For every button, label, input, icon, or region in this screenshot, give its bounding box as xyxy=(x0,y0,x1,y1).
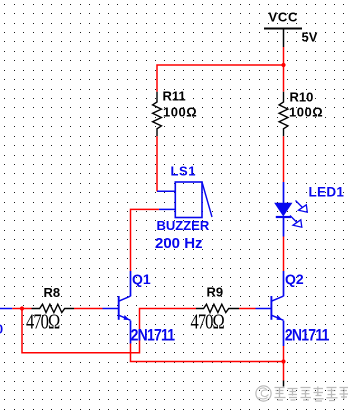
svg-text:470Ω: 470Ω xyxy=(191,310,225,333)
wire junction to R10 xyxy=(283,65,285,92)
LED1 xyxy=(275,182,344,237)
wire input to R8 xyxy=(12,308,31,310)
emission arrow 1 xyxy=(296,201,308,213)
svg-text:Q2: Q2 xyxy=(285,271,304,287)
transistor Q1 xyxy=(103,271,176,345)
resistor R11 xyxy=(153,89,198,137)
resistor R10 xyxy=(279,90,323,137)
svg-text:100Ω: 100Ω xyxy=(289,105,323,120)
resistor R9 xyxy=(191,285,240,334)
wire R11 to buzzer pin1 xyxy=(156,136,158,191)
resistor R8 xyxy=(26,285,74,334)
wire input branch to R9 xyxy=(22,309,196,353)
svg-text:LED1: LED1 xyxy=(309,185,345,200)
wire top rail to R11 xyxy=(157,65,284,92)
wire R10 to LED1 xyxy=(283,136,285,182)
junction emitter node xyxy=(281,359,285,363)
wire R8 to Q1 base xyxy=(74,308,103,310)
svg-text:0: 0 xyxy=(0,322,3,337)
node 0 input stub xyxy=(0,309,12,337)
junction at VCC rail xyxy=(281,63,285,67)
wire emitter node down xyxy=(283,362,285,381)
wire stub bottom xyxy=(283,381,285,387)
svg-text:470Ω: 470Ω xyxy=(26,310,60,333)
svg-text:VCC: VCC xyxy=(269,9,299,24)
emission arrow 2 xyxy=(290,216,302,228)
svg-text:Q1: Q1 xyxy=(132,271,151,287)
svg-text:2N1711: 2N1711 xyxy=(131,326,176,344)
wire LED1 to Q2 collector xyxy=(283,237,285,272)
wire VCC stem to junction xyxy=(283,47,285,65)
wire Q2 emitter down xyxy=(283,346,285,362)
svg-text:5V: 5V xyxy=(302,30,318,45)
svg-text:R9: R9 xyxy=(207,285,224,300)
power VCC xyxy=(264,9,302,47)
svg-text:2N1711: 2N1711 xyxy=(285,326,330,344)
svg-text:BUZZER: BUZZER xyxy=(157,218,210,233)
transistor Q2 xyxy=(256,271,330,346)
svg-text:R11: R11 xyxy=(163,89,186,104)
svg-text:LS1: LS1 xyxy=(171,163,197,178)
svg-text:R8: R8 xyxy=(44,285,61,300)
junction input node xyxy=(20,306,24,310)
buzzer LS1 xyxy=(155,163,212,252)
wire Q1 emitter to ground rail xyxy=(131,344,284,362)
svg-text:100Ω: 100Ω xyxy=(163,105,197,120)
wire R9 to Q2 base xyxy=(239,308,256,310)
wire buzzer pin2 to Q1 collector xyxy=(131,209,159,271)
watermark logo (decorative) xyxy=(256,386,271,401)
svg-text:R10: R10 xyxy=(290,90,314,105)
svg-text:200 Hz: 200 Hz xyxy=(155,235,203,252)
